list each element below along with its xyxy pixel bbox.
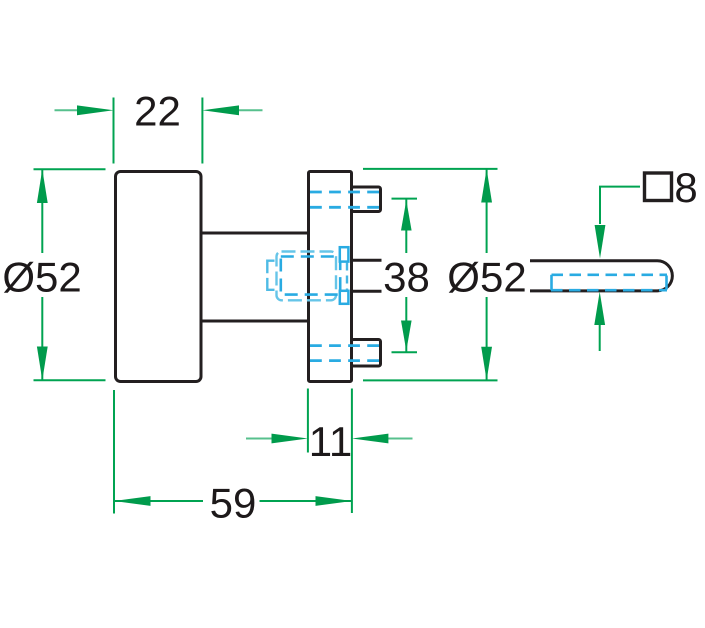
hidden hole in glass (dashed) [551,275,667,290]
dimension D52 right dim line lower segment and arrow [481,297,492,380]
dimension 11 extension line right (shared with 59) [351,389,353,514]
flange (wall plate) [309,172,352,382]
dimension 38 dim line upper segment and arrow [401,199,412,253]
svg-text:8: 8 [674,164,697,211]
svg-text:Ø52: Ø52 [2,253,81,300]
dimension 59 left segment and arrow [114,496,203,506]
dimension D52 right extension line top [363,168,498,170]
svg-text:59: 59 [210,479,257,526]
hidden thread lines, top stud [310,192,379,207]
hidden hole right edge between nuts (dashed) [346,263,348,291]
dimension 11 extension line left [307,389,309,453]
dimension D52 left extension line bottom [34,379,106,381]
shaft top line [201,232,309,235]
dimension 11 left arrow and tail [246,434,308,444]
hidden screw end cap (dashed bracket) [267,261,274,290]
cylinder body (cap, left) [116,172,202,382]
dimension 22 extension line left [113,98,115,164]
dimension 59 value label [210,479,257,526]
hidden socket screw inner outline (dashed) [281,257,340,295]
svg-text:22: 22 [134,87,181,134]
dimension 38 dim line lower segment and arrow [401,297,412,352]
dimension 59 right segment and arrow [260,496,353,506]
dimension D52 left dim line upper segment and arrow [37,169,48,253]
dimension 8 leader line and arrow [595,187,640,259]
bottom stud [352,340,381,367]
shaft bottom line [201,320,309,323]
dimension 11 value label [309,418,353,465]
boss top line [352,259,382,262]
hidden thread lines, bottom stud [310,346,379,361]
dimension 59 extension line left [113,390,115,514]
dimension D52 right value label [447,253,526,300]
svg-text:11: 11 [309,418,353,465]
dimension 22 value label [134,87,181,134]
dimension 11 right arrow and tail [352,434,413,444]
dimension 22 extension line right [201,98,203,164]
dimension 38 tick top [392,198,418,200]
square symbol for 8 [645,173,672,201]
hidden nut upper square [340,247,349,261]
top stud [352,187,381,212]
dimension D52 left value label [2,253,81,300]
hidden socket screw outer outline (light dashed) [277,252,337,301]
dimension 22 right arrow and tail [202,105,262,115]
dimension 8 value label [674,164,697,211]
glass panel (right) [530,261,672,291]
dimension 22 left arrow and tail [55,105,114,115]
svg-text:Ø52: Ø52 [447,253,526,300]
boss bottom line [352,290,382,293]
dimension D52 right extension line bottom [363,379,498,381]
dimension D52 left dim line lower segment and arrow [37,297,48,380]
hidden nut lower square [340,291,349,304]
dimension 38 value label [383,253,430,300]
dimension D52 left extension line top [34,168,106,170]
svg-text:38: 38 [383,253,430,300]
dimension 38 tick bottom [392,351,418,353]
dimension 8 lower arrow [594,292,605,351]
dimension D52 right dim line upper segment and arrow [481,169,492,253]
